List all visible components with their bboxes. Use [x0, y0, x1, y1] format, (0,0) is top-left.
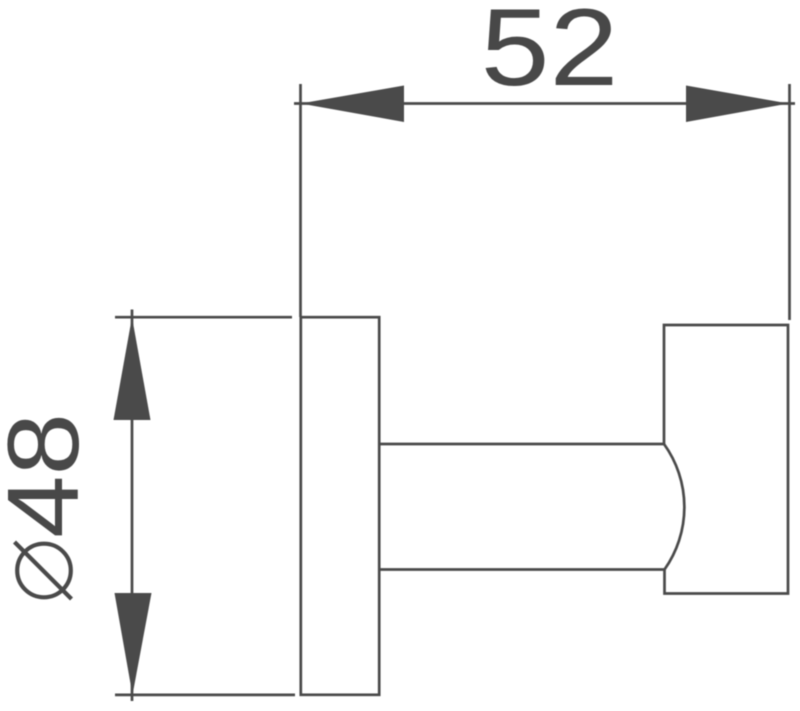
diameter symbol slash — [15, 542, 72, 599]
arrowhead right (52) — [686, 86, 789, 123]
extension line left (52) — [299, 84, 302, 317]
arrowhead left (52) — [301, 86, 405, 123]
diameter symbol circle — [17, 544, 71, 598]
dimension line 52 — [294, 102, 795, 105]
wall plate — [301, 317, 379, 695]
arrowhead bottom (Ø48) — [115, 593, 152, 695]
stem end arc — [664, 444, 684, 570]
dimension line Ø48 — [131, 310, 134, 702]
extension line bottom (Ø48) — [115, 694, 295, 697]
knob outline — [664, 325, 788, 594]
svg-text:48: 48 — [0, 413, 100, 538]
arrowhead top (Ø48) — [114, 317, 151, 420]
extension line right (52) — [788, 84, 791, 320]
stem top edge — [380, 443, 665, 446]
stem bottom edge — [380, 568, 665, 571]
extension line top (Ø48) — [115, 316, 292, 319]
svg-text:52: 52 — [481, 0, 619, 108]
